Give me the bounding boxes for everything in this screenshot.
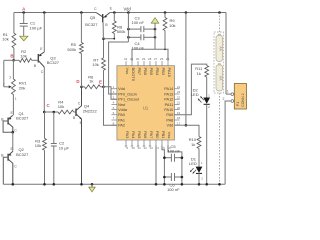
svg-text:Nrst: Nrst	[118, 103, 126, 107]
capacitor C5	[163, 144, 183, 162]
svg-text:32: 32	[124, 57, 128, 61]
resistor R5	[67, 13, 83, 87]
svg-text:10: 10	[132, 146, 136, 150]
svg-text:PA4: PA4	[131, 131, 136, 139]
wire bottom ground rail	[3, 183, 225, 186]
node D	[76, 79, 82, 88]
svg-text:11: 11	[138, 146, 141, 150]
svg-text:10k: 10k	[58, 104, 64, 109]
svg-text:C: C	[78, 101, 81, 105]
potentiometer RV1	[3, 60, 28, 115]
svg-text:PF0_Oscin: PF0_Oscin	[118, 92, 137, 96]
svg-text:Q5: Q5	[90, 15, 96, 20]
power Vdd symbol	[151, 18, 159, 29]
svg-text:BC327: BC327	[16, 152, 29, 157]
svg-text:100 nF: 100 nF	[131, 20, 144, 25]
svg-text:BC327: BC327	[47, 60, 60, 65]
transistor Q3	[34, 13, 60, 74]
connector CONN2	[223, 84, 247, 185]
resistor R3	[35, 112, 47, 184]
resistor R7 and Q5 base wire	[92, 37, 105, 86]
svg-text:100 nF: 100 nF	[167, 187, 180, 192]
svg-text:PB5: PB5	[149, 68, 154, 76]
svg-text:PB6: PB6	[143, 68, 148, 76]
svg-text:29: 29	[142, 57, 146, 61]
svg-text:LED: LED	[189, 161, 197, 166]
svg-text:10k: 10k	[92, 62, 98, 67]
svg-text:U1: U1	[143, 105, 149, 110]
resistor R9	[163, 13, 175, 50]
svg-text:10 µF: 10 µF	[59, 145, 70, 150]
svg-text:10k: 10k	[35, 143, 41, 148]
svg-text:PB1: PB1	[161, 131, 166, 139]
svg-text:PA11: PA11	[165, 103, 174, 107]
svg-text:Vdd: Vdd	[118, 87, 125, 91]
svg-text:PA8: PA8	[166, 118, 173, 122]
node A	[22, 7, 26, 12]
ground below C1	[20, 36, 28, 41]
svg-text:C: C	[14, 128, 17, 132]
svg-text:1: 1	[15, 97, 17, 101]
wire Q3 collector	[43, 67, 45, 112]
capacitor C3	[127, 16, 156, 33]
node C	[43, 103, 51, 113]
svg-text:Vss: Vss	[167, 132, 172, 139]
svg-text:PA9: PA9	[166, 113, 173, 117]
svg-text:30: 30	[136, 57, 140, 61]
svg-text:PA6: PA6	[143, 131, 148, 139]
svg-text:2: 2	[3, 83, 5, 87]
svg-text:100 nF: 100 nF	[167, 149, 180, 154]
svg-text:22: 22	[177, 95, 181, 99]
wire top rail node A segment	[14, 11, 96, 14]
transistor Q5	[85, 7, 112, 39]
capacitor C4	[127, 29, 156, 50]
svg-text:PA1: PA1	[118, 118, 125, 122]
svg-text:AA: AA	[218, 76, 222, 81]
svg-text:PA13: PA13	[164, 92, 173, 96]
svg-text:PA2: PA2	[118, 124, 125, 128]
svg-text:25: 25	[166, 57, 170, 61]
svg-text:CONN 2: CONN 2	[241, 93, 245, 107]
resistor R4	[44, 100, 76, 114]
svg-text:24: 24	[177, 85, 181, 89]
svg-text:28: 28	[148, 57, 152, 61]
svg-text:26: 26	[160, 57, 164, 61]
svg-text:BOOT0: BOOT0	[131, 68, 136, 82]
svg-text:PA5: PA5	[137, 131, 142, 139]
svg-text:20k: 20k	[19, 85, 25, 90]
svg-text:D: D	[76, 79, 79, 84]
svg-text:10k: 10k	[2, 36, 8, 41]
wire U1 pin15 to C5 rail	[162, 145, 164, 184]
svg-text:BC327: BC327	[85, 22, 98, 27]
microcontroller U1	[111, 57, 180, 150]
wire node E to U1 pin 2	[104, 87, 117, 99]
svg-text:C: C	[41, 70, 44, 74]
svg-text:E: E	[99, 80, 102, 85]
transistor Q2	[1, 147, 29, 184]
svg-text:1k: 1k	[89, 79, 93, 84]
svg-text:18: 18	[177, 116, 181, 120]
svg-text:PB7: PB7	[137, 68, 142, 76]
resistor R2	[14, 49, 38, 62]
transistor Q4	[73, 87, 98, 185]
svg-text:12: 12	[144, 146, 148, 150]
svg-text:P1: P1	[236, 102, 240, 106]
resistor R8	[104, 13, 126, 40]
resistor R10	[189, 137, 201, 167]
node Vdd	[123, 7, 131, 12]
capacitor C1	[20, 13, 43, 37]
svg-text:PB0: PB0	[155, 131, 160, 139]
resistor R1	[2, 13, 16, 61]
capacitor C2	[51, 111, 70, 185]
wire top rail Vdd segment	[110, 11, 226, 94]
svg-text:3: 3	[9, 76, 11, 80]
svg-text:27: 27	[154, 57, 158, 61]
svg-text:PA3: PA3	[125, 131, 130, 139]
wire U1 pin 19 to R11	[175, 64, 207, 115]
svg-text:500k: 500k	[67, 47, 76, 52]
svg-text:PA15: PA15	[167, 68, 172, 78]
LED D1	[189, 157, 203, 185]
svg-text:10k: 10k	[20, 54, 26, 59]
svg-text:1k: 1k	[191, 142, 195, 147]
wire Vdd to U1 pin 1	[109, 13, 129, 95]
svg-text:PB3: PB3	[161, 68, 166, 76]
svg-text:Vdd: Vdd	[123, 7, 131, 12]
svg-text:2: 2	[223, 97, 225, 101]
svg-text:500k: 500k	[117, 29, 126, 34]
wire RV1 wiper to node B	[4, 60, 14, 88]
wire U1 pin16 to C5 right rail	[168, 145, 182, 184]
node B	[10, 54, 14, 62]
svg-text:PA10: PA10	[164, 108, 173, 112]
ground symbol	[89, 184, 95, 192]
svg-text:PA12: PA12	[164, 98, 173, 102]
svg-text:LED: LED	[191, 92, 199, 97]
resistor R11	[195, 66, 208, 98]
wire U1 pin14 to ground	[155, 145, 157, 184]
wire Q1 to Q2	[12, 132, 14, 151]
svg-text:PA14: PA14	[164, 87, 173, 91]
svg-text:BC327: BC327	[16, 116, 29, 121]
svg-text:PA7: PA7	[149, 131, 154, 139]
svg-text:1: 1	[227, 90, 229, 94]
svg-text:B: B	[10, 54, 13, 59]
resistor R6	[82, 74, 104, 88]
svg-text:21: 21	[177, 101, 181, 105]
svg-text:C: C	[94, 7, 97, 11]
svg-text:31: 31	[130, 57, 134, 61]
capacitor C6	[163, 173, 183, 192]
svg-text:PF1_Oscout: PF1_Oscout	[118, 98, 140, 102]
svg-text:2N2222: 2N2222	[83, 108, 98, 113]
svg-text:Vdda: Vdda	[118, 108, 128, 112]
wire Vdd to U1 pin 17 and R10	[175, 13, 200, 137]
wire U1 top pins jumper	[132, 37, 168, 61]
svg-text:C: C	[14, 165, 17, 169]
svg-text:20: 20	[177, 106, 181, 110]
svg-text:13: 13	[150, 146, 154, 150]
svg-text:1k: 1k	[197, 71, 201, 76]
wire node E to U1 pin 7	[104, 87, 117, 125]
svg-text:100 µF: 100 µF	[30, 25, 43, 30]
svg-text:10k: 10k	[169, 23, 175, 28]
svg-text:PB4: PB4	[155, 68, 160, 76]
svg-text:23: 23	[177, 90, 181, 94]
svg-text:PA0: PA0	[118, 113, 125, 117]
battery pack 2xAA	[214, 13, 223, 185]
svg-text:Vss: Vss	[125, 68, 130, 75]
svg-text:Vdd: Vdd	[167, 124, 174, 128]
svg-text:AA: AA	[218, 46, 222, 51]
transistor Q1	[1, 111, 29, 134]
node E	[99, 80, 105, 89]
LED D2	[191, 87, 210, 184]
